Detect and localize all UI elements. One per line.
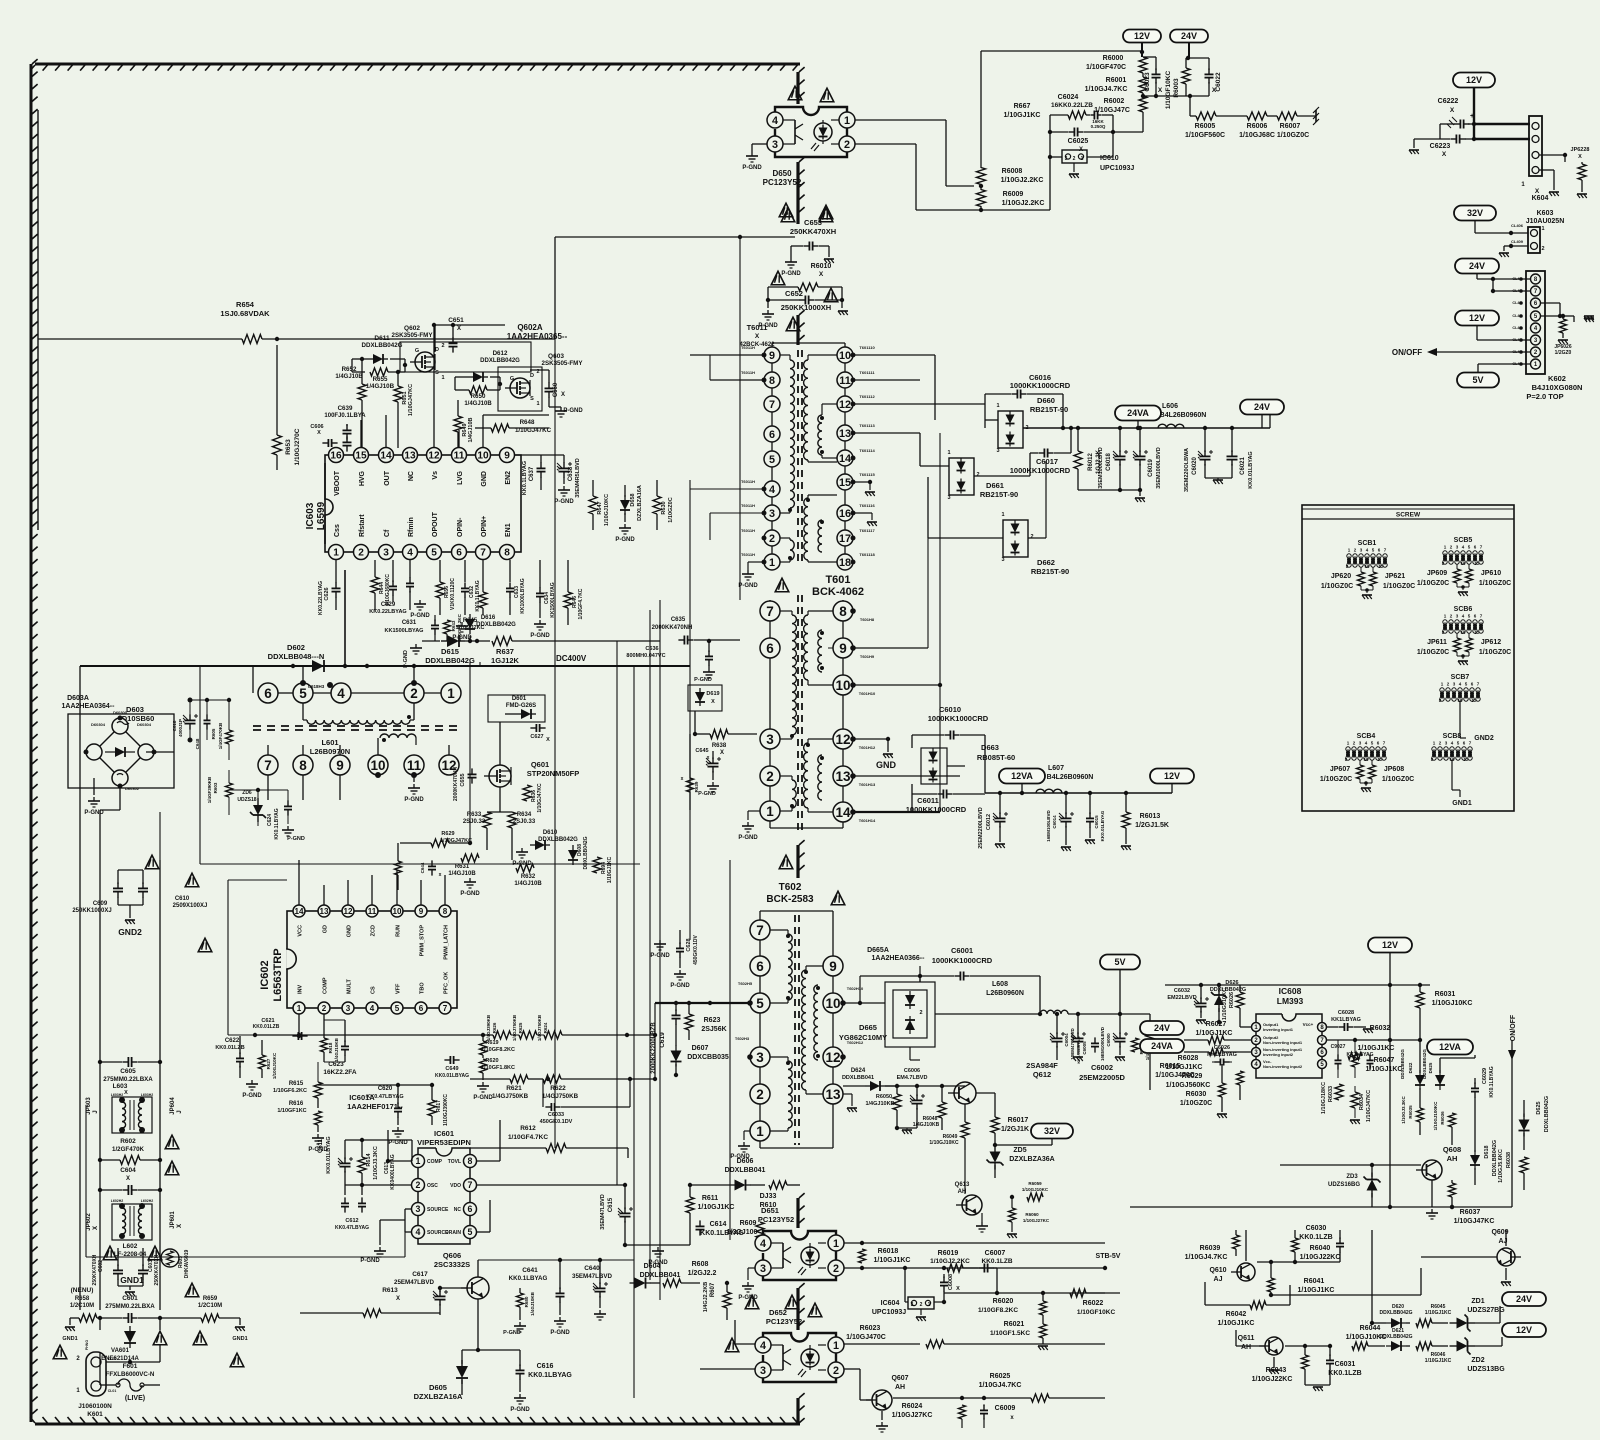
svg-text:R6040: R6040 <box>1310 1245 1331 1252</box>
svg-text:Q613: Q613 <box>955 1182 970 1188</box>
capacitor C6006 <box>916 1094 918 1100</box>
bridge rectifier D603 box <box>68 714 174 788</box>
wire <box>276 345 278 435</box>
svg-text:GND1: GND1 <box>1452 800 1472 807</box>
svg-text:JP612: JP612 <box>1481 639 1501 646</box>
svg-text:C648: C648 <box>195 738 200 749</box>
pin IC603-10 GND <box>476 448 491 463</box>
svg-text:KK1500LBYAG: KK1500LBYAG <box>385 628 424 634</box>
pin L601-10 <box>368 755 388 775</box>
svg-text:1/2GJ1.5K: 1/2GJ1.5K <box>1135 822 1169 829</box>
svg-text:T6011: T6011 <box>747 323 768 332</box>
svg-text:P-GND: P-GND <box>404 797 424 803</box>
svg-text:C651: C651 <box>448 317 464 324</box>
transformer T602 outline <box>759 911 761 1148</box>
svg-text:1/4GJ10KB: 1/4GJ10KB <box>865 1101 894 1107</box>
svg-text:GND1: GND1 <box>232 1336 247 1342</box>
wire 5V <box>1119 970 1121 1014</box>
svg-text:V1KK0.1120C: V1KK0.1120C <box>450 578 456 610</box>
svg-text:KK0.22LBYAG: KK0.22LBYAG <box>369 609 406 615</box>
pin T602-9 <box>823 956 843 976</box>
svg-text:NC: NC <box>408 471 415 481</box>
svg-text:JP620: JP620 <box>1331 573 1351 580</box>
svg-text:1/4GJ390KB: 1/4GJ390KB <box>486 1014 491 1041</box>
svg-text:1/10GJ10KC: 1/10GJ10KC <box>929 1140 959 1146</box>
svg-text:R6009: R6009 <box>1003 191 1024 198</box>
pin T6011-18 <box>837 554 853 570</box>
svg-text:BCK-2583: BCK-2583 <box>766 894 814 905</box>
svg-text:R6000: R6000 <box>1103 55 1124 62</box>
svg-text:1: 1 <box>769 557 775 569</box>
svg-text:X: X <box>1450 107 1455 114</box>
wire D660 in <box>985 419 998 421</box>
capacitor C6005 <box>1077 1032 1079 1038</box>
wire <box>853 647 928 649</box>
svg-text:P-GND: P-GND <box>388 1140 408 1146</box>
svg-text:1/4GF470KB: 1/4GF470KB <box>218 722 223 749</box>
svg-text:JP603: JP603 <box>86 1097 92 1115</box>
svg-text:C6025: C6025 <box>1068 138 1089 145</box>
wire RUN up <box>396 870 398 905</box>
svg-text:KK0.1LBYAG: KK0.1LBYAG <box>274 808 280 839</box>
svg-text:Q603: Q603 <box>548 353 564 360</box>
wire <box>905 1301 908 1303</box>
svg-text:R629: R629 <box>441 831 454 837</box>
svg-text:R6018: R6018 <box>878 1248 899 1255</box>
wire main 12VA <box>985 792 1162 794</box>
svg-text:1: 1 <box>833 1340 839 1352</box>
svg-text:C6020: C6020 <box>1192 457 1198 475</box>
transistor Q609 AJ <box>1497 1248 1515 1266</box>
svg-text:GND2: GND2 <box>1474 735 1494 742</box>
svg-text:R616: R616 <box>289 1101 304 1107</box>
svg-text:C6000: C6000 <box>1106 1033 1111 1047</box>
L601 winding sec <box>380 734 416 738</box>
svg-text:800MH0.047VC: 800MH0.047VC <box>626 653 665 659</box>
svg-text:C6029: C6029 <box>1482 1068 1488 1084</box>
wire ZCD up <box>371 875 373 905</box>
svg-text:12V: 12V <box>1134 31 1150 41</box>
svg-text:L26B0970N: L26B0970N <box>310 747 350 756</box>
svg-text:R612: R612 <box>520 1125 536 1132</box>
svg-text:1/10GJ1KC: 1/10GJ1KC <box>1366 1066 1403 1073</box>
pin T6011-9 <box>764 347 780 363</box>
svg-text:17: 17 <box>839 533 851 545</box>
svg-text:1: 1 <box>1541 226 1544 232</box>
svg-text:450GK0.1DV: 450GK0.1DV <box>693 934 699 964</box>
pin T601-8 <box>833 601 853 621</box>
diode D615 <box>441 640 447 642</box>
diode D605 <box>461 1360 463 1366</box>
svg-text:4: 4 <box>769 484 775 496</box>
warning triangle <box>185 1283 199 1297</box>
svg-text:R6044: R6044 <box>1360 1325 1381 1332</box>
resistor R631 <box>461 854 479 862</box>
svg-text:1AA2HEA0364--: 1AA2HEA0364-- <box>62 703 116 710</box>
svg-text:16KK0.22LZB: 16KK0.22LZB <box>1051 102 1093 109</box>
svg-text:VA601: VA601 <box>111 1348 130 1354</box>
svg-text:24V: 24V <box>1254 402 1270 412</box>
wire ON/OFF <box>1511 1040 1513 1207</box>
svg-text:D611: D611 <box>374 335 390 342</box>
svg-text:C660: C660 <box>553 382 559 397</box>
ground pin16 <box>853 512 872 514</box>
wire Q612 row <box>885 1085 965 1087</box>
svg-text:T602H5: T602H5 <box>738 981 753 986</box>
pin T601-13 <box>833 766 853 786</box>
resistor R6005 <box>1196 112 1216 120</box>
svg-text:R653: R653 <box>285 439 292 455</box>
wire Q609 base <box>1421 1256 1497 1258</box>
svg-text:KK1LBYAG: KK1LBYAG <box>1331 1017 1361 1023</box>
svg-text:R623: R623 <box>704 1017 721 1024</box>
svg-text:T6011H: T6011H <box>741 503 755 508</box>
svg-text:DDXLBB042G: DDXLBB042G <box>1544 1096 1550 1132</box>
svg-text:FMD-G26S: FMD-G26S <box>506 703 536 709</box>
svg-text:R603: R603 <box>213 782 218 793</box>
P-GND <box>379 1247 381 1251</box>
svg-text:C618: C618 <box>172 720 177 731</box>
wire <box>1539 154 1565 156</box>
wire <box>99 1062 101 1100</box>
warning triangle <box>53 1345 67 1359</box>
svg-text:P-GND: P-GND <box>738 1295 758 1301</box>
capacitor C640 <box>599 1282 601 1288</box>
svg-text:1SJ0.68VDAK: 1SJ0.68VDAK <box>220 309 270 318</box>
warning triangle <box>145 855 159 869</box>
svg-text:R605: R605 <box>211 728 216 739</box>
svg-text:1/10GJ10KC: 1/10GJ10KC <box>272 1052 277 1079</box>
svg-text:1/10GJ560KC: 1/10GJ560KC <box>1166 1082 1211 1089</box>
capacitor C6014 <box>1065 812 1067 818</box>
svg-text:T601111: T601111 <box>859 370 875 375</box>
svg-text:12V: 12V <box>1516 1325 1532 1335</box>
pin IC603-14 OUT <box>379 448 394 463</box>
wire to R6005 <box>1189 96 1191 116</box>
pin T601-9 <box>833 638 853 658</box>
svg-text:P-GND: P-GND <box>615 537 635 543</box>
svg-text:OPIN-: OPIN- <box>457 517 464 537</box>
pin IC601-6 NC <box>464 1203 477 1216</box>
resistor R647 <box>589 496 597 514</box>
resistor R644 <box>371 577 379 593</box>
resistor R6036 <box>1449 1113 1456 1127</box>
svg-text:IC601A: IC601A <box>349 1093 375 1102</box>
wire <box>99 1318 101 1330</box>
svg-text:DDXLBB041: DDXLBB041 <box>640 1272 681 1279</box>
capacitor C6000 <box>1119 1032 1121 1038</box>
wire R654 <box>38 338 242 340</box>
wire q606 emitter <box>477 1330 479 1350</box>
svg-text:DZXLBZA36A: DZXLBZA36A <box>1009 1156 1055 1163</box>
svg-text:1/10GF1.5KC: 1/10GF1.5KC <box>990 1330 1030 1337</box>
svg-text:MULT: MULT <box>347 978 353 994</box>
svg-text:DDXCBB035: DDXCBB035 <box>687 1054 729 1061</box>
svg-text:LM393: LM393 <box>1277 996 1304 1006</box>
diode D625b <box>1523 1114 1525 1120</box>
svg-text:C620: C620 <box>378 1086 393 1092</box>
pin T6011-7 <box>764 396 780 412</box>
svg-text:P-GND: P-GND <box>360 1258 380 1264</box>
wire <box>1421 1267 1495 1269</box>
svg-text:2: 2 <box>1541 246 1544 252</box>
wire <box>1021 783 1023 793</box>
svg-text:10: 10 <box>835 678 850 693</box>
svg-text:5: 5 <box>468 1227 473 1237</box>
svg-text:R6030: R6030 <box>1186 1091 1207 1098</box>
page split hatch line <box>796 72 799 104</box>
wire GND pin10 <box>482 415 484 448</box>
zener ZD1 <box>1450 1322 1457 1324</box>
diodes D622 D625 <box>1419 1070 1421 1075</box>
resistor R6031 <box>1416 992 1424 1008</box>
svg-text:X: X <box>755 333 760 340</box>
svg-text:14: 14 <box>839 453 851 465</box>
wire L601 left <box>252 666 254 693</box>
pin IC608-2 <box>1252 1036 1261 1045</box>
svg-text:1/10GJ3.3KC: 1/10GJ3.3KC <box>373 1146 379 1180</box>
pin T601-3 <box>760 729 780 749</box>
svg-text:24VA: 24VA <box>1151 1041 1173 1051</box>
ground <box>1584 317 1594 319</box>
zener ZD2 <box>1450 1345 1457 1347</box>
capacitor C602 <box>117 1264 119 1270</box>
svg-text:1/10GZ0C: 1/10GZ0C <box>1321 583 1353 590</box>
capacitor C615 <box>624 1207 626 1213</box>
wire 5V pin1 <box>1477 364 1479 388</box>
winding T601 s2b <box>818 755 822 800</box>
warning triangle <box>771 271 785 285</box>
svg-text:PC123Y52: PC123Y52 <box>763 178 802 187</box>
svg-text:COMP: COMP <box>427 1159 443 1165</box>
pin IC602-7 PFC_OK <box>439 1002 451 1014</box>
svg-text:D60304: D60304 <box>137 722 152 727</box>
L601 winding main <box>307 720 410 724</box>
svg-text:1/4GJ750KB: 1/4GJ750KB <box>542 1093 579 1100</box>
svg-text:EN1: EN1 <box>505 523 512 537</box>
capacitor C6003 <box>1094 1037 1096 1043</box>
svg-text:R620: R620 <box>485 1058 498 1064</box>
pin K602-8 <box>1531 274 1541 284</box>
resistor R658 <box>79 1314 97 1322</box>
svg-text:C639: C639 <box>338 405 353 412</box>
wire <box>200 863 555 865</box>
connector K602 <box>1526 271 1545 374</box>
winding T6011 sec3 <box>804 498 808 560</box>
12V supply oval <box>1455 311 1499 326</box>
pin T6011-2 <box>764 530 780 546</box>
diode D616 <box>469 614 471 619</box>
wire zd6 row <box>229 789 288 791</box>
wire left vert x555 <box>554 339 556 1148</box>
wire q610 up <box>1245 1230 1247 1261</box>
svg-text:D619: D619 <box>706 691 719 697</box>
pin T602-13 <box>823 1084 843 1104</box>
svg-text:1AA2HEA0366--: 1AA2HEA0366-- <box>872 955 926 962</box>
wire <box>936 419 949 421</box>
svg-text:CL02: CL02 <box>108 1357 117 1361</box>
svg-text:5: 5 <box>395 1004 400 1013</box>
svg-text:P-GND: P-GND <box>410 613 430 619</box>
wire GD up <box>323 885 325 905</box>
resistor R6007 <box>1277 112 1297 120</box>
svg-text:6: 6 <box>419 1004 424 1013</box>
resistor R639 <box>687 778 694 792</box>
pin T601-6 <box>760 638 780 658</box>
svg-text:C622: C622 <box>225 1038 240 1044</box>
svg-text:1/10GZ0C: 1/10GZ0C <box>1479 649 1511 656</box>
svg-text:PC123Y52: PC123Y52 <box>758 1215 794 1224</box>
svg-text:1/2C10M: 1/2C10M <box>198 1303 222 1309</box>
svg-text:X: X <box>317 430 321 436</box>
svg-text:R6038: R6038 <box>1506 1152 1512 1168</box>
svg-text:RB215T-90: RB215T-90 <box>980 490 1018 499</box>
svg-text:T601H8: T601H8 <box>860 617 875 622</box>
warning triangle <box>103 1246 117 1260</box>
capacitor C6223 <box>1450 138 1456 140</box>
resistor R650 <box>469 386 487 394</box>
svg-text:C602: C602 <box>98 1260 104 1272</box>
capacitor C605 <box>122 1061 128 1063</box>
warning triangle <box>745 1295 759 1309</box>
svg-text:DDXLBB048---N: DDXLBB048---N <box>268 652 325 661</box>
svg-text:1/4GJ10B: 1/4GJ10B <box>468 417 474 442</box>
svg-text:32V: 32V <box>1044 1126 1060 1136</box>
pin K602-1 <box>1531 359 1541 369</box>
capacitor C629 <box>392 580 394 586</box>
resistor R614 <box>358 1157 366 1173</box>
pin T6011-5 <box>764 451 780 467</box>
diode D604 <box>630 1282 635 1284</box>
svg-text:7: 7 <box>756 923 764 938</box>
svg-text:X: X <box>1212 87 1217 94</box>
12V supply oval <box>1502 1323 1546 1337</box>
svg-text:1/10GJ1KC: 1/10GJ1KC <box>1196 1030 1233 1037</box>
svg-text:8: 8 <box>769 375 775 387</box>
svg-text:GD: GD <box>323 925 329 933</box>
svg-text:1/10GZ0C: 1/10GZ0C <box>1382 776 1414 783</box>
P-GND D651 <box>748 1267 755 1269</box>
svg-text:RUN: RUN <box>396 925 402 937</box>
svg-text:JP608: JP608 <box>1384 766 1404 773</box>
pin IC601-3 SOURCE <box>412 1203 425 1216</box>
svg-text:C618H3: C618H3 <box>308 684 325 689</box>
svg-text:D650: D650 <box>772 169 792 178</box>
svg-text:3: 3 <box>383 548 389 559</box>
winding T602 p2 <box>770 1056 788 1058</box>
diode D624 <box>865 1085 870 1087</box>
ground <box>1413 139 1415 148</box>
svg-text:D60304: D60304 <box>91 722 106 727</box>
pin T6011-8 <box>764 372 780 388</box>
svg-text:EN2: EN2 <box>505 471 512 485</box>
svg-text:P-GND: P-GND <box>698 791 716 797</box>
svg-text:6: 6 <box>468 1204 473 1214</box>
svg-text:R617: R617 <box>436 1100 442 1112</box>
wire Q609 link <box>1271 1294 1421 1296</box>
P-GND label <box>659 940 661 944</box>
wire D660 out <box>1023 427 1270 429</box>
wire q611 base <box>1235 1330 1237 1346</box>
wire 24V rail <box>1188 42 1190 58</box>
svg-text:S: S <box>530 396 534 402</box>
pin T602-10 <box>823 993 843 1013</box>
wire <box>1028 537 1046 539</box>
svg-text:1/4GJ10B: 1/4GJ10B <box>366 383 395 390</box>
wire <box>1267 115 1277 117</box>
svg-text:D601: D601 <box>512 696 527 702</box>
svg-text:RB215T-90: RB215T-90 <box>1030 405 1068 414</box>
wire ON/OFF pin2 <box>1435 351 1530 353</box>
page split hatch line <box>796 1288 799 1330</box>
svg-text:25EM22005D: 25EM22005D <box>1079 1073 1125 1082</box>
svg-text:T601H12: T601H12 <box>859 745 876 750</box>
resistor R649 <box>454 416 462 432</box>
resistor R630 <box>653 496 661 514</box>
winding T602 s1 <box>806 965 823 967</box>
resistor R634 <box>508 812 516 828</box>
svg-text:C652: C652 <box>785 289 803 298</box>
wire <box>1104 1243 1106 1268</box>
svg-text:3: 3 <box>772 139 778 151</box>
ground pin3 D650 <box>752 143 767 145</box>
capacitor C614 <box>699 1220 701 1226</box>
capacitor C603 <box>142 1264 144 1270</box>
svg-text:5: 5 <box>769 454 775 466</box>
svg-text:Vcc+: Vcc+ <box>1303 1022 1314 1027</box>
wire pin12 <box>433 325 435 345</box>
pin T602-6 <box>750 956 770 976</box>
pin IC603-1 Css <box>329 545 344 560</box>
pin IC608-1 <box>1252 1023 1261 1032</box>
T601 GND wire pin14 <box>853 811 940 813</box>
wire <box>844 1368 860 1370</box>
12V supply oval <box>1368 938 1412 953</box>
pin K602-6 <box>1531 298 1541 308</box>
svg-text:R6059: R6059 <box>1028 1181 1042 1186</box>
resistor R621 <box>510 1075 528 1083</box>
ground GND pin12 <box>853 738 888 740</box>
svg-text:Inverting input1: Inverting input1 <box>1263 1027 1294 1032</box>
resistor R638 <box>710 730 728 739</box>
wire pin8 <box>1327 1026 1335 1028</box>
svg-text:K601: K601 <box>87 1411 103 1418</box>
svg-text:C614: C614 <box>710 1221 727 1228</box>
wire T6011-3 left <box>710 512 764 514</box>
diode D608 <box>572 845 574 850</box>
svg-text:Q608: Q608 <box>1443 1145 1461 1154</box>
svg-text:EM22LBVD: EM22LBVD <box>1167 995 1196 1001</box>
svg-text:PWM_LATCH: PWM_LATCH <box>444 925 450 960</box>
capacitor C6004u <box>1056 1032 1058 1038</box>
svg-text:10: 10 <box>1460 630 1466 635</box>
svg-text:5: 5 <box>756 996 764 1011</box>
connector K601 plug <box>86 1352 106 1396</box>
wire opto drive <box>879 208 881 560</box>
svg-text:2: 2 <box>756 1087 764 1102</box>
svg-text:R643: R643 <box>451 620 456 631</box>
svg-text:R6002: R6002 <box>1104 98 1125 105</box>
resistor R645 <box>479 592 487 608</box>
pin T602-7 <box>750 920 770 940</box>
varistor VA601 <box>129 1326 131 1331</box>
svg-text:R648: R648 <box>520 419 535 426</box>
svg-text:X: X <box>93 1226 99 1230</box>
svg-text:13: 13 <box>839 428 851 440</box>
svg-text:1000KK1000CRD: 1000KK1000CRD <box>1010 466 1071 475</box>
svg-text:D625: D625 <box>1428 1062 1433 1073</box>
svg-text:4: 4 <box>407 548 413 559</box>
